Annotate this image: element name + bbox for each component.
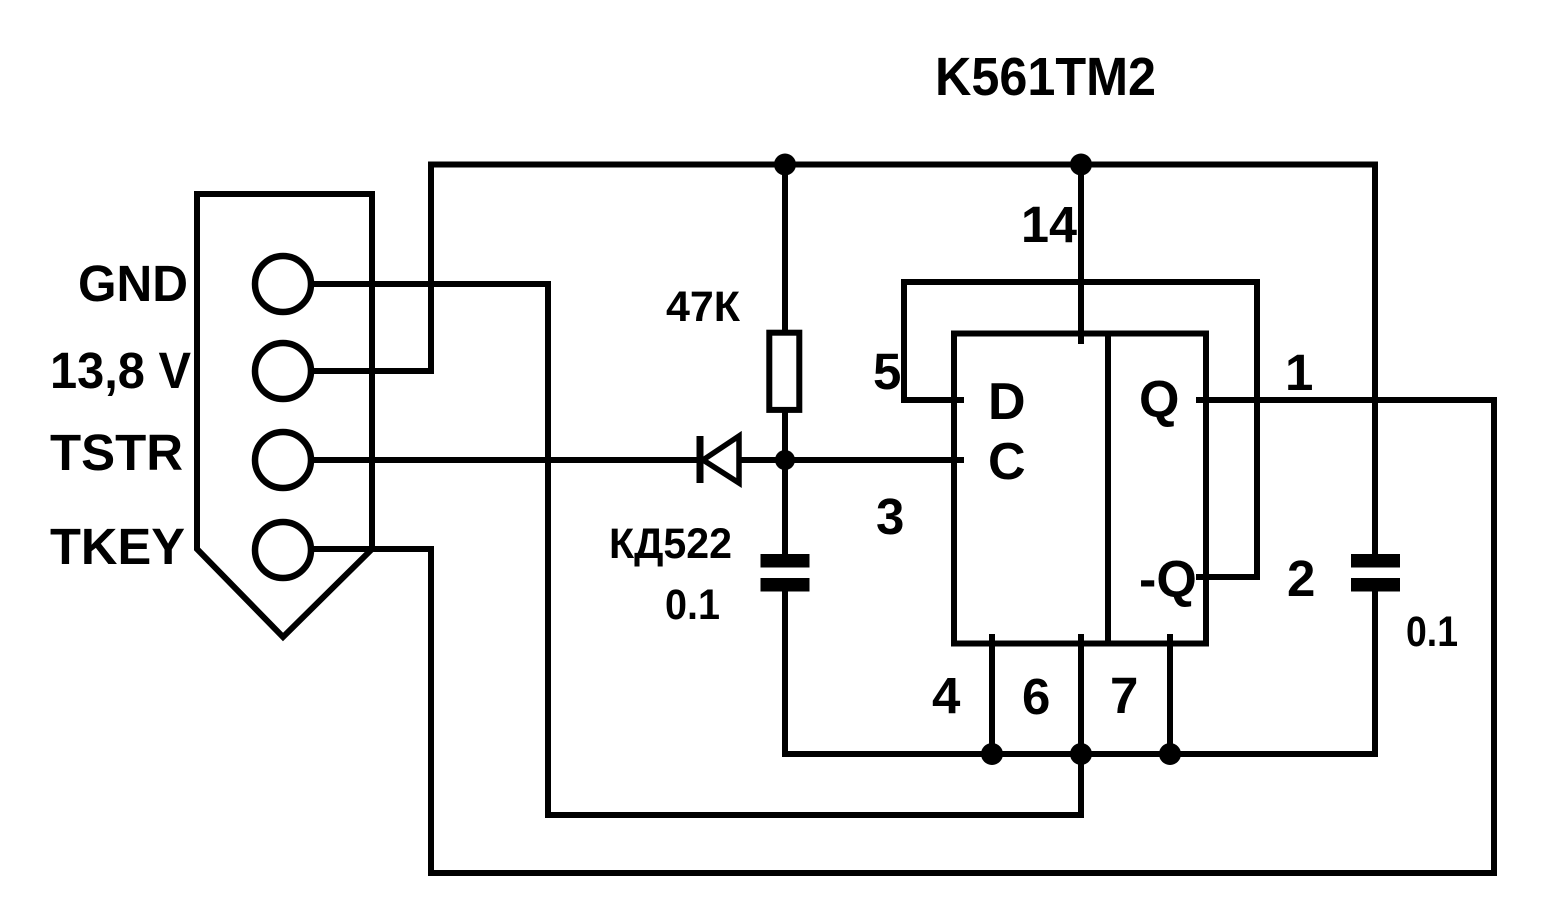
svg-text:C: C (988, 433, 1026, 491)
connector X1 body (197, 194, 372, 637)
wire pin 6 (1078, 634, 1084, 758)
connector pin circle TKEY (255, 522, 311, 578)
svg-text:КД522: КД522 (609, 520, 732, 568)
svg-text:13,8 V: 13,8 V (50, 342, 191, 399)
svg-text:D: D (988, 373, 1026, 431)
svg-text:TKEY: TKEY (50, 518, 185, 575)
capacitor C2 bottom plate (1351, 578, 1400, 592)
wire Q output to right vertical (1196, 397, 1497, 403)
wire capacitor C1 to pins rail to capacitor C2 (785, 585, 1375, 754)
wire pin 4 (989, 634, 995, 754)
IC U1 internal divider (1105, 334, 1111, 644)
wire pin 7 (1167, 634, 1173, 754)
svg-text:-Q: -Q (1139, 551, 1197, 609)
svg-text:TSTR: TSTR (50, 424, 183, 481)
IC U1 body K561TM2 (954, 334, 1206, 644)
capacitor C1 top plate (761, 554, 810, 568)
wire resistor branch from rail to node (782, 165, 788, 461)
junction pin 4 (981, 743, 1003, 765)
svg-text:0.1: 0.1 (1406, 608, 1458, 656)
junction pin 6 (1070, 743, 1092, 765)
capacitor C1 bottom plate (761, 578, 810, 592)
svg-text:0.1: 0.1 (665, 581, 720, 629)
junction supply-pin14 (1070, 154, 1092, 176)
wire 13.8V pin to supply rail (313, 368, 434, 374)
svg-text:5: 5 (873, 343, 901, 400)
wire TSTR to C input through diode (283, 457, 964, 463)
junction supply-resistor (774, 154, 796, 176)
capacitor C2 top plate (1351, 554, 1400, 568)
diode VD1 cathode bar (697, 436, 704, 483)
svg-text:3: 3 (876, 488, 904, 545)
wire TKEY down to bottom rail (283, 400, 1494, 873)
wire pin 14 from rail to IC top (1078, 165, 1084, 345)
svg-text:6: 6 (1022, 668, 1050, 725)
wire node to capacitor C1 (782, 460, 788, 560)
svg-text:Q: Q (1139, 371, 1179, 429)
resistor R1 47K body (769, 333, 799, 410)
junction diode node (775, 450, 795, 470)
connector pin circle TSTR (255, 432, 311, 488)
svg-text:K561TM2: K561TM2 (935, 47, 1156, 107)
wire feedback -Q to D input (904, 282, 1257, 577)
wire top supply rail (431, 165, 1375, 558)
connector pin circle 13.8V (255, 343, 311, 399)
svg-text:GND: GND (78, 255, 188, 312)
svg-text:7: 7 (1110, 667, 1138, 724)
svg-text:1: 1 (1285, 344, 1313, 401)
svg-text:2: 2 (1287, 550, 1315, 607)
diode VD1 triangle (703, 436, 739, 483)
svg-text:14: 14 (1021, 196, 1078, 253)
wire GND pin to ground rail (283, 284, 1081, 815)
connector pin circle GND (255, 256, 311, 312)
svg-text:4: 4 (932, 667, 961, 724)
svg-text:47К: 47К (666, 283, 741, 331)
junction pin 7 (1159, 743, 1181, 765)
